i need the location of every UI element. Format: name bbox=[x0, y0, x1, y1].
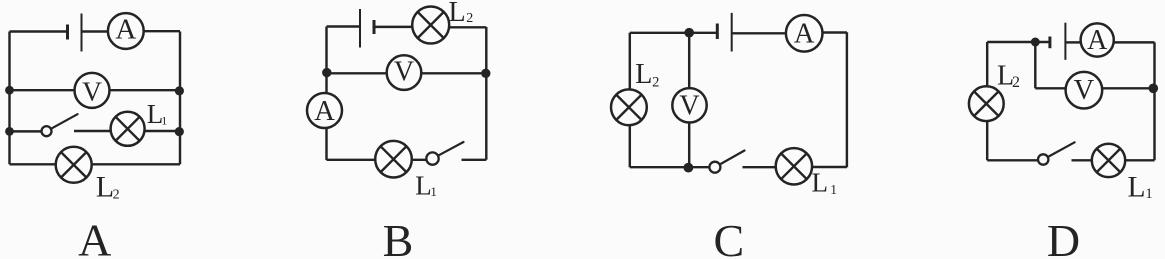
svg-text:L: L bbox=[1128, 172, 1146, 204]
svg-text:L: L bbox=[96, 171, 114, 204]
svg-text:2: 2 bbox=[652, 75, 659, 91]
svg-text:2: 2 bbox=[113, 187, 120, 202]
svg-text:A: A bbox=[115, 14, 136, 46]
svg-text:V: V bbox=[82, 75, 102, 106]
svg-text:V: V bbox=[394, 57, 414, 88]
svg-text:D: D bbox=[1047, 215, 1080, 259]
svg-text:B: B bbox=[383, 215, 414, 259]
svg-text:2: 2 bbox=[1012, 74, 1020, 91]
svg-text:A: A bbox=[78, 214, 111, 259]
svg-text:2: 2 bbox=[466, 11, 473, 26]
svg-text:1: 1 bbox=[830, 182, 837, 197]
svg-text:L: L bbox=[635, 59, 652, 90]
svg-text:1: 1 bbox=[430, 184, 437, 199]
svg-text:1: 1 bbox=[1145, 186, 1153, 202]
svg-text:A: A bbox=[794, 18, 815, 49]
svg-text:C: C bbox=[713, 215, 744, 259]
svg-text:V: V bbox=[1074, 75, 1095, 106]
svg-text:L: L bbox=[415, 170, 432, 200]
svg-text:L: L bbox=[812, 167, 829, 197]
svg-text:1: 1 bbox=[161, 114, 167, 128]
svg-text:L: L bbox=[449, 0, 466, 28]
svg-text:A: A bbox=[1087, 25, 1108, 56]
svg-text:A: A bbox=[314, 96, 335, 127]
svg-text:V: V bbox=[679, 90, 699, 121]
